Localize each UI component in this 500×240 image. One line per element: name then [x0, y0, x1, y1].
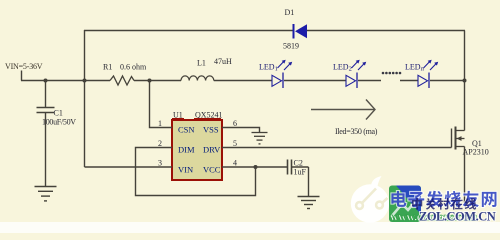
- svg-text:DRV: DRV: [203, 145, 221, 155]
- wire pin1 CSN: [150, 81, 173, 128]
- transistor Q1: [452, 127, 465, 150]
- wire pin2 DIM loop: [136, 148, 256, 196]
- resistor R1: [110, 76, 134, 85]
- svg-text:CSN: CSN: [178, 125, 195, 135]
- wire top rail right of D1: [307, 30, 465, 32]
- wire top rail left of D1: [84, 30, 293, 32]
- svg-text:5819: 5819: [283, 42, 299, 51]
- wire Q1 source down: [464, 147, 466, 206]
- svg-text:AP2310: AP2310: [463, 148, 489, 157]
- watermark text dianzifashaoyouwang: [391, 191, 496, 207]
- svg-text:3: 3: [158, 159, 162, 168]
- svg-text:100uF/50V: 100uF/50V: [42, 118, 76, 127]
- node ellipsis dots: [382, 72, 402, 75]
- svg-text:DIM: DIM: [178, 145, 195, 155]
- svg-text:0.6 ohm: 0.6 ohm: [120, 63, 147, 72]
- capacitor C2: [288, 160, 309, 197]
- bottom white strip: [0, 222, 500, 233]
- svg-text:5: 5: [233, 139, 237, 148]
- svg-text:47uH: 47uH: [214, 57, 232, 66]
- node junction dot LED rail end: [463, 79, 467, 83]
- capacitor C1: [37, 81, 55, 187]
- svg-text:VCC: VCC: [203, 165, 221, 175]
- wire rail LED2 to dots: [358, 80, 381, 82]
- ground VSS: [252, 133, 268, 144]
- LED LED1: [272, 60, 292, 88]
- watermark elecfans logo circle: [351, 176, 389, 223]
- node junction dot VCC-DIM: [254, 165, 258, 169]
- wire rail LED1 to LED2: [284, 80, 346, 82]
- watermark zol logo square: [389, 186, 421, 223]
- diode D1: [294, 24, 308, 39]
- svg-text:1uF: 1uF: [294, 168, 307, 177]
- wire rail dots to LEDn: [400, 80, 418, 82]
- wire pin3 VIN: [85, 166, 173, 168]
- wire pin5 DRV to gate: [222, 147, 452, 149]
- svg-text:4: 4: [233, 159, 237, 168]
- svg-text:D1: D1: [285, 8, 295, 17]
- svg-text:L1: L1: [197, 59, 206, 68]
- wire rail L1 to LED1: [214, 80, 272, 82]
- svg-text:VIN=5-36V: VIN=5-36V: [5, 62, 43, 71]
- svg-text:C1: C1: [54, 109, 63, 118]
- ground C2: [298, 197, 320, 209]
- svg-text:C2: C2: [294, 159, 303, 168]
- LED LED2: [346, 60, 366, 88]
- svg-text:Iled=350 (ma): Iled=350 (ma): [335, 127, 378, 136]
- svg-text:VSS: VSS: [203, 125, 219, 135]
- wire main rail left segment: [21, 80, 110, 82]
- wire pin6 VSS: [222, 128, 260, 133]
- svg-text:ZOL.COM.CN: ZOL.COM.CN: [419, 210, 496, 224]
- node junction dot C1 tap: [44, 79, 48, 83]
- wire VIN tick: [21, 71, 23, 81]
- LED LEDn: [418, 60, 438, 88]
- wire right vertical drain: [464, 31, 466, 131]
- svg-text:1: 1: [158, 119, 162, 128]
- watermark text zhongguancunzaixian: [412, 198, 476, 210]
- svg-text:6: 6: [233, 119, 237, 128]
- arrow current direction: [311, 100, 375, 120]
- wire pin4 VCC to C2: [222, 166, 287, 168]
- wire left loop vertical: [84, 30, 86, 167]
- node junction dot left loop: [83, 79, 87, 83]
- svg-text:2: 2: [158, 139, 162, 148]
- node junction dot R1-L1 tap: [148, 79, 152, 83]
- wire rail R1 to L1: [134, 80, 181, 82]
- wire rail LEDn to right vertical: [430, 80, 465, 82]
- svg-text:VIN: VIN: [178, 165, 193, 175]
- ground C1: [35, 187, 57, 201]
- op-amp U1 box: [172, 120, 222, 180]
- inductor L1: [181, 76, 214, 81]
- svg-text:R1: R1: [103, 63, 112, 72]
